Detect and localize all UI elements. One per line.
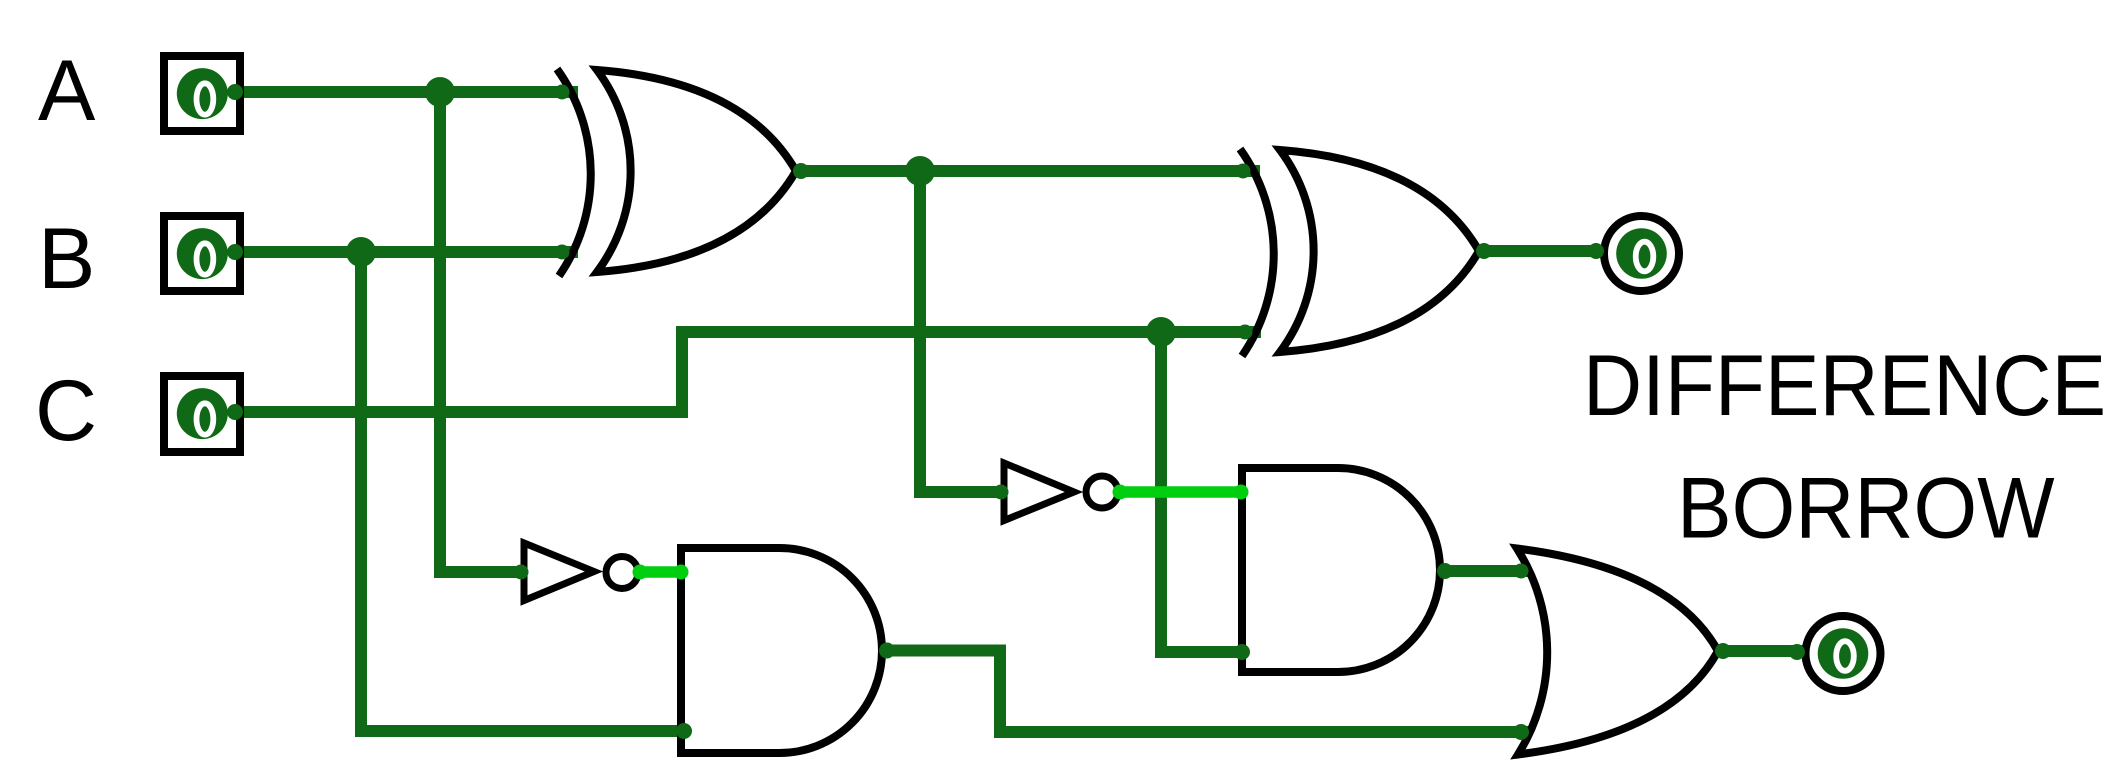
svg-text:C: C — [35, 363, 97, 459]
svg-text:BORROW: BORROW — [1677, 460, 2054, 556]
svg-text:DIFFERENCE: DIFFERENCE — [1583, 337, 2106, 433]
svg-text:B: B — [38, 211, 95, 307]
svg-text:A: A — [38, 43, 96, 139]
